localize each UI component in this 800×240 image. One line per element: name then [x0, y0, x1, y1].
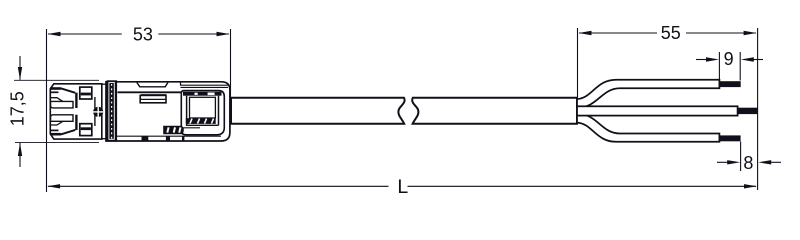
svg-text:9: 9 — [724, 49, 734, 69]
svg-text:53: 53 — [133, 25, 153, 45]
svg-text:55: 55 — [661, 23, 681, 43]
svg-text:8: 8 — [743, 153, 753, 173]
svg-text:L: L — [397, 176, 408, 198]
svg-text:17,5: 17,5 — [7, 91, 27, 126]
